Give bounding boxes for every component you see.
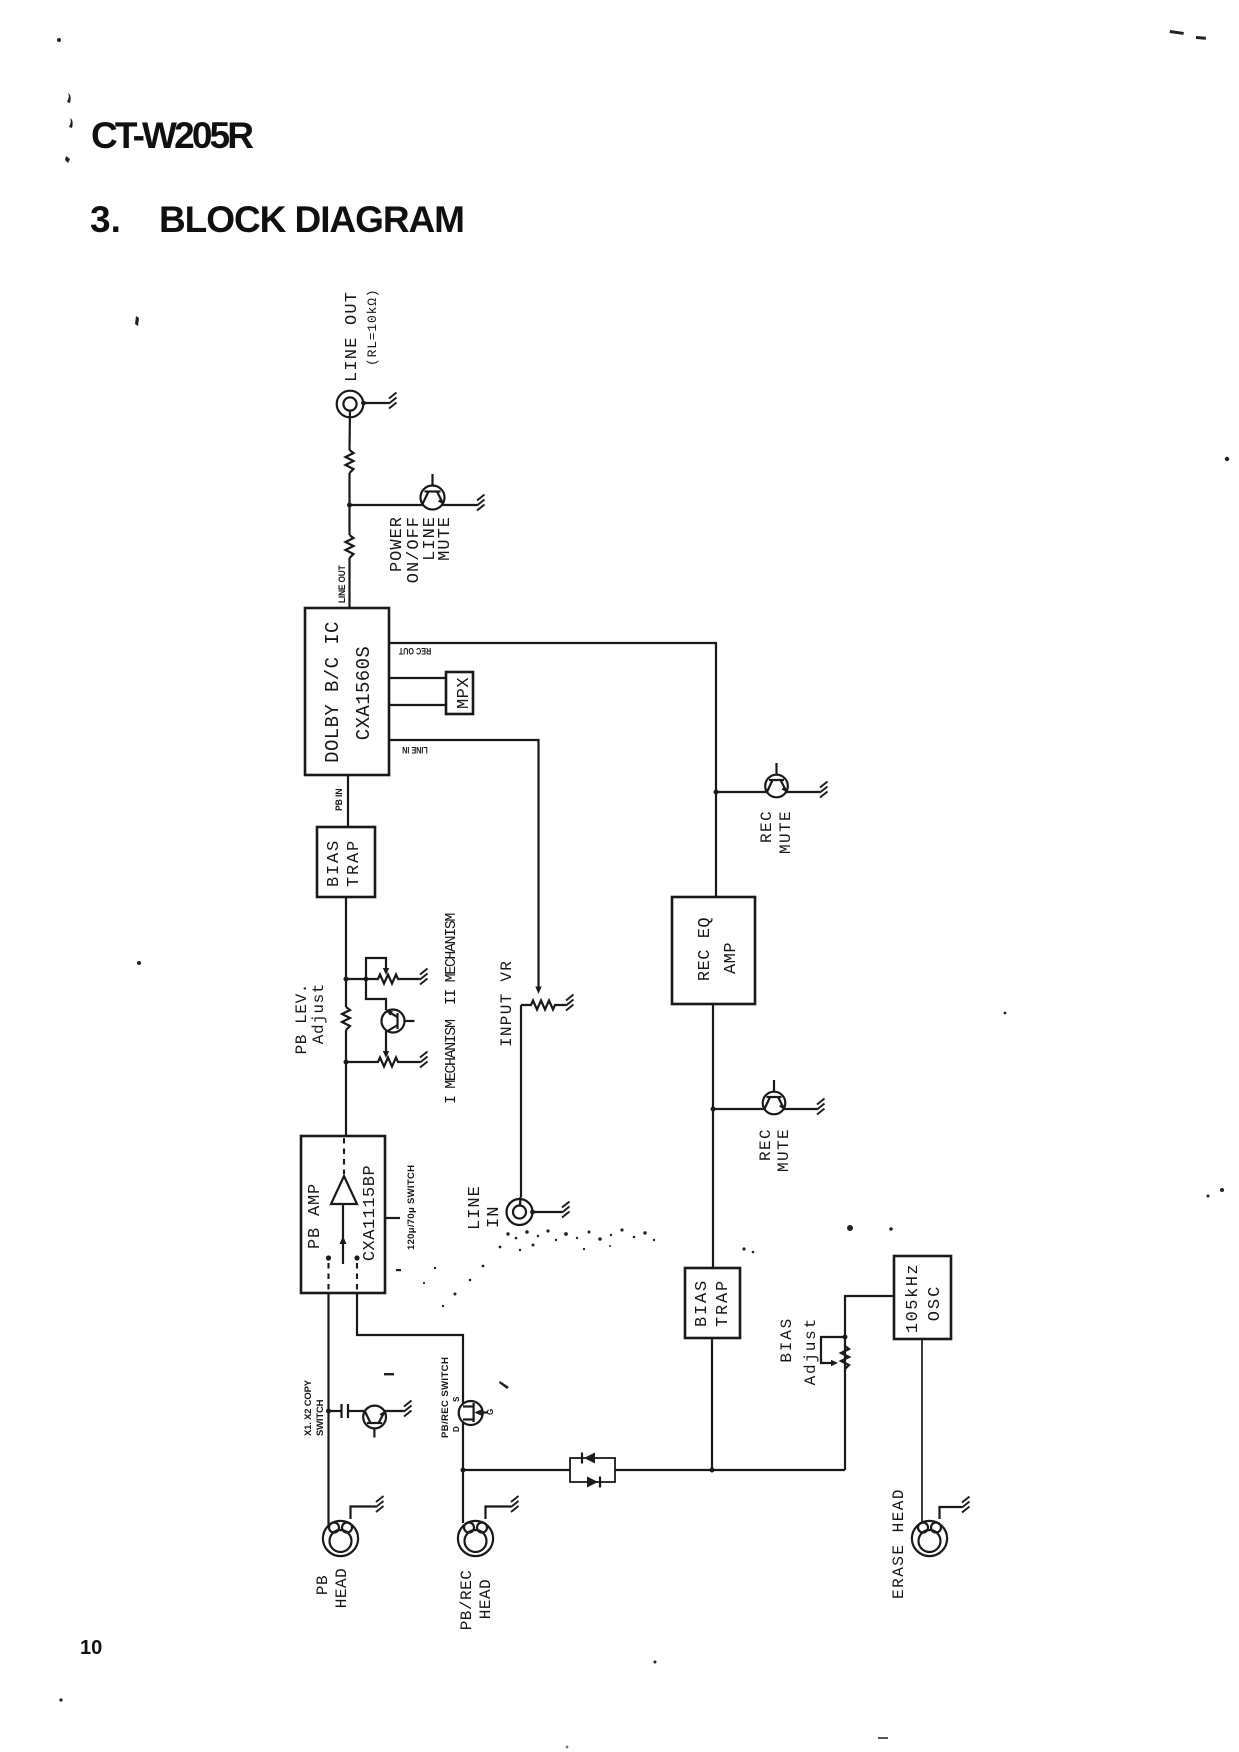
svg-text:3.: 3. xyxy=(90,199,121,240)
svg-text:MUTE: MUTE xyxy=(775,1128,793,1172)
wire Q5 to ground xyxy=(385,1410,405,1412)
wire FET down to PB/REC head xyxy=(462,1422,464,1523)
jack J2 LINE IN xyxy=(507,1197,533,1225)
wire U2 left pin to PB head xyxy=(327,1293,329,1526)
transistor Q6 PB/REC SWITCH FET xyxy=(459,1401,488,1425)
wire dashed U2 pin left xyxy=(327,1263,329,1292)
svg-text:BIAS: BIAS xyxy=(693,1279,712,1327)
wire jack J2 to ground xyxy=(533,1211,563,1213)
wire bottom bus right xyxy=(615,1469,845,1471)
node C junction pot2 xyxy=(344,1060,349,1065)
wire junction to Q3 xyxy=(713,1108,764,1110)
wire jack J1 to ground xyxy=(364,402,390,404)
node G junction bias adjust xyxy=(843,1335,848,1340)
wire BIAS TRAP 2 down xyxy=(711,1338,713,1470)
svg-text:ERASE HEAD: ERASE HEAD xyxy=(890,1488,908,1599)
wire BIAS TRAP 1 down xyxy=(345,897,347,1007)
ground at jack J1 xyxy=(389,393,397,409)
svg-text:X1. X2 COPY: X1. X2 COPY xyxy=(303,1379,314,1436)
wire U1 to MPX upper xyxy=(389,677,446,679)
ground at erase head xyxy=(962,1497,970,1513)
oscillator U3 105kHz OSC xyxy=(894,1256,951,1339)
svg-text:PB AMP: PB AMP xyxy=(306,1183,325,1249)
capacitor C1 xyxy=(329,1404,365,1418)
svg-text:BLOCK DIAGRAM: BLOCK DIAGRAM xyxy=(159,199,465,240)
wire U1 to MPX lower xyxy=(389,704,446,706)
label BIAS Adjust xyxy=(778,1317,820,1385)
wire U1 LINE IN pin right xyxy=(389,740,539,988)
svg-text:Adjust: Adjust xyxy=(802,1317,820,1385)
ground at PB head xyxy=(376,1496,384,1512)
wire U2 internal xyxy=(342,1204,344,1264)
node jack J2 right xyxy=(530,1210,535,1215)
label REC MUTE upper xyxy=(758,810,795,854)
node B junction pot1 xyxy=(344,977,349,982)
svg-text:(RL=10kΩ): (RL=10kΩ) xyxy=(365,289,380,366)
svg-text:PB IN: PB IN xyxy=(334,789,344,811)
wire VR1 to jack J2 xyxy=(520,1005,522,1197)
wire Q4 to VR3 wiper xyxy=(385,1031,387,1052)
op-amp triangle U2 xyxy=(331,1176,357,1204)
arrowhead wiper INPUT VR xyxy=(535,987,541,995)
svg-text:MPX: MPX xyxy=(455,677,474,709)
head PB/REC HEAD xyxy=(458,1521,493,1556)
potentiometer VR2 PB LEV upper xyxy=(346,975,420,984)
wire Q3 to ground xyxy=(784,1108,818,1110)
svg-text:Adjust: Adjust xyxy=(310,983,328,1044)
svg-text:BIAS: BIAS xyxy=(325,839,344,887)
resistor R3 xyxy=(342,1007,350,1030)
svg-text:I MECHANISM II MECHANISM: I MECHANISM II MECHANISM xyxy=(443,913,460,1104)
svg-text:MUTE: MUTE xyxy=(436,516,455,561)
svg-text:SWITCH: SWITCH xyxy=(315,1399,326,1436)
wire U2 right pin to FET xyxy=(357,1293,463,1404)
jack J1 LINE OUT xyxy=(337,391,364,418)
wire node A down xyxy=(348,505,350,535)
svg-text:HEAD: HEAD xyxy=(477,1579,495,1619)
node E junction bottom bus xyxy=(461,1468,466,1473)
svg-text:BIAS: BIAS xyxy=(778,1317,796,1363)
wire node A to Q1 xyxy=(350,504,424,506)
svg-text:REC EQ: REC EQ xyxy=(696,917,715,981)
svg-text:PB/REC SWITCH: PB/REC SWITCH xyxy=(440,1357,451,1438)
filter BIAS TRAP 1 xyxy=(317,827,375,897)
arrowhead bias adjust wiper xyxy=(831,1360,838,1366)
ground at VR2 xyxy=(420,969,428,985)
svg-text:105kHz: 105kHz xyxy=(904,1263,923,1333)
label REC MUTE lower xyxy=(757,1128,793,1172)
node jack J1 right xyxy=(361,401,366,406)
arrowhead VR3 wiper xyxy=(383,1051,389,1058)
node D junction X1X2 xyxy=(326,1409,331,1414)
ground at VR1 xyxy=(566,995,574,1011)
transistor Q2 REC MUTE xyxy=(765,763,788,797)
ground at Q2 xyxy=(820,782,828,798)
potentiometer VR1 INPUT VR xyxy=(521,1001,566,1010)
svg-text:LINE OUT: LINE OUT xyxy=(343,291,362,382)
label PB LEV. Adjust xyxy=(293,983,328,1054)
resistor R1 xyxy=(346,450,354,473)
resistor R2 xyxy=(346,535,354,558)
wire dashed U2 pin right xyxy=(356,1263,358,1292)
node U2 pin left xyxy=(326,1255,331,1260)
node VR2 wiper tie xyxy=(364,977,369,982)
svg-text:PB: PB xyxy=(314,1575,332,1595)
svg-text:REC: REC xyxy=(757,1128,775,1161)
wire U1 REC OUT pin right xyxy=(389,643,716,897)
wire U1 PB IN pin down xyxy=(347,775,349,827)
transistor Q5 X1 X2 COPY SWITCH xyxy=(363,1406,386,1438)
ground at Q3 xyxy=(817,1099,825,1115)
amplifier REC EQ AMP xyxy=(672,897,755,1004)
node junction to Q3 xyxy=(711,1107,716,1112)
svg-text:120μ/70μ SWITCH: 120μ/70μ SWITCH xyxy=(406,1165,417,1250)
wire VR2 wiper loop xyxy=(366,958,386,979)
filter BIAS TRAP 2 xyxy=(685,1268,740,1338)
svg-text:PB LEV.: PB LEV. xyxy=(293,983,311,1054)
arrowhead U2 internal xyxy=(340,1236,347,1244)
svg-text:HEAD: HEAD xyxy=(333,1568,351,1608)
transistor Q3 REC MUTE xyxy=(763,1080,786,1114)
svg-text:OSC: OSC xyxy=(926,1285,945,1322)
wire PB head ground branch xyxy=(351,1507,377,1520)
wire Q2 to ground xyxy=(786,791,820,793)
wire bias adjust wiper loop xyxy=(821,1337,845,1363)
svg-text:D: D xyxy=(452,1426,461,1432)
svg-text:CXA1560S: CXA1560S xyxy=(353,646,375,740)
resistor R4 BIAS Adjust xyxy=(841,1346,849,1369)
svg-text:MUTE: MUTE xyxy=(777,810,795,854)
wire jack J1 down xyxy=(348,410,351,450)
svg-text:REC OUT: REC OUT xyxy=(398,646,431,657)
potentiometer VR3 PB LEV lower xyxy=(346,1058,420,1067)
label X1. X2 COPY SWITCH xyxy=(303,1379,326,1436)
svg-text:AMP: AMP xyxy=(722,942,741,974)
svg-text:CXA1115BP: CXA1115BP xyxy=(361,1165,380,1261)
svg-text:IN: IN xyxy=(485,1206,504,1228)
wire U2 switch stub xyxy=(385,1217,400,1219)
svg-text:TRAP: TRAP xyxy=(714,1279,733,1327)
svg-text:DOLBY B/C IC: DOLBY B/C IC xyxy=(322,621,344,763)
head ERASE HEAD xyxy=(912,1521,947,1556)
wire Q1 to ground xyxy=(442,504,477,506)
wire bottom bus left xyxy=(463,1469,570,1471)
op-amp U2 PB AMP CXA1115BP xyxy=(301,1136,385,1293)
transistor Q1 POWER ON/OFF LINE MUTE xyxy=(421,474,445,510)
ground at Q1 xyxy=(477,495,485,511)
scan dirt cluster near LINE IN xyxy=(423,1228,655,1307)
op-amp U1 DOLBY B/C IC CXA1560S xyxy=(305,608,389,775)
ground at VR3 xyxy=(420,1052,428,1068)
svg-text:REC: REC xyxy=(758,810,776,843)
wire VR2 tie to Q4 xyxy=(366,979,386,1010)
wire R1 to node A xyxy=(348,473,350,506)
svg-text:PB/REC: PB/REC xyxy=(458,1570,476,1631)
wire R2 to U1 LINE OUT pin xyxy=(348,558,350,608)
wire R3 to node C xyxy=(345,1030,347,1136)
wire OSC to erase head xyxy=(921,1339,923,1522)
diode pair D1 D2 xyxy=(570,1453,615,1488)
svg-text:10: 10 xyxy=(80,1637,102,1659)
node junction REC OUT to Q2 xyxy=(714,790,719,795)
label POWER ON/OFF LINE MUTE xyxy=(388,516,455,583)
svg-text:G: G xyxy=(486,1409,495,1415)
arrowhead VR2 wiper xyxy=(383,968,389,975)
node A junction xyxy=(347,503,352,508)
wire junction to Q2 xyxy=(716,791,766,793)
ground at jack J2 xyxy=(562,1202,570,1218)
svg-text:TRAP: TRAP xyxy=(345,839,364,887)
svg-text:LINE: LINE xyxy=(466,1185,485,1230)
filter MPX xyxy=(446,672,473,714)
transistor Q4 mechanism switch xyxy=(382,1010,415,1033)
ground at Q5 xyxy=(404,1401,412,1417)
node F junction bias trap 2 xyxy=(710,1468,715,1473)
wire REC EQ AMP down xyxy=(712,1004,714,1268)
ground at PB/REC head xyxy=(511,1496,519,1512)
svg-text:INPUT VR: INPUT VR xyxy=(498,960,516,1047)
node U2 pin right xyxy=(354,1255,359,1260)
wire dashed U2 input xyxy=(343,1138,345,1174)
wire erase head ground branch xyxy=(940,1507,963,1519)
head PB HEAD xyxy=(323,1521,358,1556)
svg-text:CT-W205R: CT-W205R xyxy=(91,115,254,156)
svg-text:LINE IN: LINE IN xyxy=(402,745,428,756)
svg-text:LINE OUT: LINE OUT xyxy=(337,565,348,603)
svg-text:S: S xyxy=(452,1396,461,1402)
wire PB/REC head ground branch xyxy=(486,1507,512,1520)
wire bus up to OSC xyxy=(845,1296,894,1470)
